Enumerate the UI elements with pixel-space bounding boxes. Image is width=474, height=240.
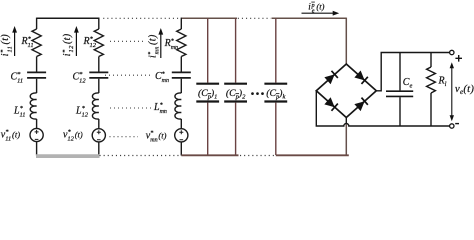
dotted continuation row at resistor level (110, 40, 144, 42)
voltage source v11 (30, 128, 43, 141)
svg-text:(Cp)2: (Cp)2 (226, 88, 246, 100)
capacitor Cmn (172, 72, 191, 78)
capacitor CB2 plates (224, 83, 247, 85)
arrow current imn (158, 28, 163, 58)
svg-text:v*12(t): v*12(t) (63, 129, 83, 143)
svg-text:C*11: C*11 (11, 71, 24, 85)
wire resistor to capacitor (180, 57, 182, 72)
capacitor CB1 plates (196, 83, 219, 85)
svg-text:i*mn(t): i*mn(t) (148, 34, 161, 58)
capacitor bank CBk bottom wire (275, 103, 277, 155)
wire inductor to source (180, 119, 182, 128)
inductor Lmn (175, 93, 181, 119)
wire resistor to capacitor (98, 57, 100, 72)
label minus sign (455, 123, 459, 125)
svg-text:v*mn(t): v*mn(t) (146, 130, 167, 143)
wire inductor to source (36, 119, 38, 128)
diode D2 top-right (354, 70, 368, 84)
svg-text:R*11: R*11 (21, 35, 34, 49)
svg-text:C*12: C*12 (73, 71, 87, 85)
capacitor CBk plates (264, 83, 287, 85)
capacitor Ce bottom wire (399, 97, 401, 126)
resistor Rl wire from plus line (430, 53, 432, 68)
svg-text:L*11: L*11 (13, 105, 26, 119)
label i*_11(t) rotated (0, 34, 13, 57)
dotted continuation row at capacitor level (105, 74, 153, 76)
resistor R12 (94, 29, 103, 57)
branch 11: wire from rail to resistor (36, 18, 38, 29)
wire resistor to capacitor (36, 57, 38, 72)
wire inductor to source (98, 119, 100, 128)
wire rail corner down to bridge top (345, 18, 347, 64)
diode D1 top-left (324, 71, 338, 85)
svg-text:Rl: Rl (438, 76, 447, 88)
svg-text:ve(t): ve(t) (455, 84, 474, 96)
svg-text:v*11(t): v*11(t) (1, 129, 20, 143)
bottom rail brown segment right (276, 154, 349, 156)
resistor Rl wire to bottom line (430, 93, 432, 126)
wire bridge bottom vertex stub (345, 118, 347, 125)
diode D4 bottom-right (354, 98, 368, 112)
wire bridge bottom to bottom rail brown (345, 124, 347, 156)
arrow current i11 (12, 26, 17, 56)
svg-text:Ce: Ce (403, 77, 413, 89)
svg-text:L*12: L*12 (75, 105, 89, 119)
voltage source vmn (175, 129, 188, 142)
wire top rail dotted segment 1 (103, 17, 178, 19)
capacitor C11 (27, 72, 46, 78)
wire top rail solid left segment (37, 17, 100, 19)
svg-text:L*mn: L*mn (153, 102, 167, 115)
bottom rail dotted segment 2 (240, 155, 275, 157)
svg-text:R*mn: R*mn (164, 38, 178, 51)
wire top rail right brown segment (272, 17, 347, 19)
svg-text:C*mn: C*mn (155, 71, 169, 84)
capacitor bank CB2 bottom wire (235, 103, 237, 155)
inductor L12 (92, 93, 98, 119)
bottom rail dotted segment 1 (100, 155, 182, 157)
wire capacitor to inductor (36, 79, 38, 93)
bridge diamond edges (316, 64, 376, 118)
capacitor Ce plates (386, 91, 413, 96)
bottom rail grey bar left segment (36, 154, 100, 158)
inductor L11 (30, 93, 36, 119)
capacitor bank CB1 bottom wire (207, 103, 209, 155)
capacitor C12 (89, 72, 108, 78)
label i*_12(t) rotated (61, 33, 75, 56)
resistor Rl (427, 67, 436, 93)
ellipsis dots between CB2 and CBk (251, 92, 264, 95)
dotted continuation row at source level (110, 136, 139, 138)
label i*_mn(t) rotated (148, 34, 161, 58)
terminal plus (450, 50, 454, 54)
svg-text:R*12: R*12 (83, 35, 97, 49)
wire capacitor to inductor (180, 79, 182, 93)
wire source to bottom rail (98, 142, 100, 156)
wire bridge right vertex up to plus line (376, 53, 449, 91)
capacitor bank CBk top wire (275, 18, 277, 82)
wire bridge left vertex down and under with hop to minus terminal (316, 91, 449, 126)
wire source to bottom rail (180, 142, 182, 156)
branch 12: wire from rail to resistor (98, 18, 100, 29)
resistor Rmn (177, 29, 186, 57)
arrow current i12 (74, 26, 79, 56)
label plus sign (455, 55, 462, 62)
arrow output voltage both ends (450, 62, 454, 121)
capacitor Ce top wire (399, 53, 401, 91)
resistor R11 (32, 29, 41, 57)
capacitor bank CB1 top wire (207, 18, 209, 82)
arrow current i_p top rail (302, 11, 340, 16)
voltage source v12 (92, 129, 105, 142)
svg-text:(Cp)1: (Cp)1 (198, 88, 217, 100)
dotted continuation row at inductor level (110, 107, 151, 109)
branch mn: wire from rail to resistor (180, 18, 182, 29)
wire source to bottom rail (36, 142, 38, 156)
terminal minus (450, 124, 454, 128)
wire top rail brown segment (181, 17, 237, 19)
svg-text:i*12(t): i*12(t) (61, 33, 75, 56)
bottom rail brown segment mid (181, 154, 238, 156)
wire top rail dotted segment 2 (238, 17, 271, 19)
svg-text:(Cp)k: (Cp)k (266, 88, 285, 100)
svg-text:i*11(t): i*11(t) (0, 34, 13, 57)
diode D3 bottom-left (324, 97, 338, 111)
wire capacitor to inductor (98, 79, 100, 93)
capacitor bank CB2 top wire (235, 18, 237, 82)
